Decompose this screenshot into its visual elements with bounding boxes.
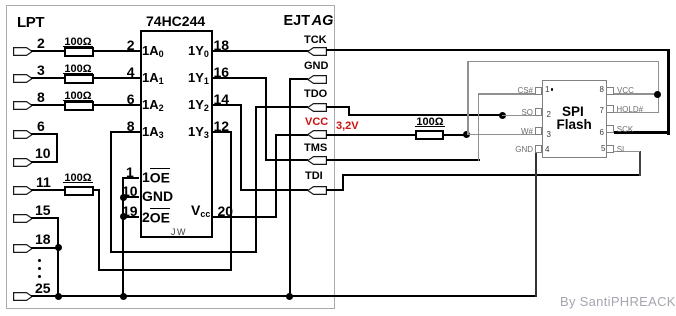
IC U2 SPI Flash body xyxy=(542,80,607,158)
resistor R2 100ohm xyxy=(64,74,94,85)
wire TMS row to connector xyxy=(265,159,309,161)
connector TCK xyxy=(307,47,327,56)
connector LPT pin 15 xyxy=(13,214,33,223)
pin label 1Y0 xyxy=(188,46,209,57)
wire R5 to W# node xyxy=(444,134,467,136)
pin label 1Y3 xyxy=(188,127,209,138)
connector TDO xyxy=(307,103,327,112)
pin number 6 (SPI) xyxy=(600,129,604,137)
pin number 6 xyxy=(37,121,45,132)
pin label 1A2 xyxy=(142,100,164,111)
pin number 16 (IC) xyxy=(214,67,230,78)
pin number 4 (SPI) xyxy=(545,146,549,154)
pin 1 marker dot xyxy=(551,88,554,91)
signal label TMS xyxy=(304,144,327,153)
pin number 5 (SPI) xyxy=(601,145,605,153)
wire 1Y2 (pin14) right xyxy=(213,104,242,106)
pin number 4 (IC) xyxy=(127,67,135,78)
wire OE chain vertical to ground rail xyxy=(122,177,124,298)
label 74HC244 xyxy=(146,15,205,27)
wire pin18 right xyxy=(31,247,59,249)
pin number 18 (IC) xyxy=(214,40,230,51)
pin label 1Y1 xyxy=(188,73,209,84)
pin number 6 (IC) xyxy=(127,94,135,105)
wire TDI right xyxy=(326,189,344,191)
wire TMS to CS# riser xyxy=(326,159,480,161)
wire net A: pin11 riser xyxy=(98,189,100,271)
wire SPI GND drop to rail xyxy=(535,152,537,297)
pin number 12 (IC) xyxy=(214,121,230,132)
connector LPT pin 8 xyxy=(13,101,33,110)
pin label HOLD# xyxy=(616,106,643,114)
wire pin2 to R1 xyxy=(31,50,64,52)
wire W# stub (gray) xyxy=(467,134,536,135)
pin number 2 (IC) xyxy=(127,40,135,51)
pin number 8 xyxy=(37,92,45,103)
wire 1OE stub xyxy=(122,177,139,179)
label EJTAG xyxy=(284,15,334,27)
pin number 18 xyxy=(35,234,51,245)
pin box SI (5) xyxy=(606,145,614,153)
connector LPT pin 2 xyxy=(13,47,33,56)
wire TCK into SCK xyxy=(614,131,670,134)
pin number 8 (SPI) xyxy=(600,86,604,94)
wire SI riser xyxy=(639,151,641,176)
wire TDO right xyxy=(326,106,350,108)
pin number 25 xyxy=(35,283,51,294)
wire pin6-pin10 vertical jumper xyxy=(56,133,58,162)
value label 100ohm R4 xyxy=(63,174,93,183)
ellipsis dots pins 19-24 xyxy=(38,259,41,262)
wire R2 to 1A1 xyxy=(94,77,140,79)
wire TDO to SO xyxy=(348,114,503,116)
pin box W# (3) xyxy=(535,127,542,135)
signal label TCK xyxy=(304,36,327,45)
pin number 11 xyxy=(36,177,51,188)
junction OE/2OE pin19 xyxy=(120,213,127,220)
wire pin10 right xyxy=(31,161,58,163)
resistor R1 100ohm xyxy=(64,47,94,58)
pin box GND (4) xyxy=(535,145,542,153)
wire TDO step down xyxy=(348,106,350,116)
pin label 1Y2 xyxy=(188,100,209,111)
pin label 1A3 xyxy=(142,127,164,138)
wire Vcc riser to VCC row xyxy=(275,134,277,218)
IC U1 74HC244 body xyxy=(140,30,213,238)
pin label 1A0 xyxy=(142,46,164,57)
resistor R3 100ohm xyxy=(64,101,94,112)
pin number 14 (IC) xyxy=(214,94,230,105)
value label 100ohm R2 xyxy=(63,65,93,74)
pin label SO xyxy=(512,109,533,117)
wire net B: riser to TDO row xyxy=(255,106,257,253)
wire 1Y1 (pin16) right xyxy=(213,77,267,79)
connector GND xyxy=(307,75,327,84)
wire SO stub (gray) xyxy=(502,115,536,116)
pin number 8 (IC) xyxy=(127,121,135,132)
signal label VCC (red) xyxy=(305,118,328,127)
pin number 20 (IC) xyxy=(218,206,234,217)
connector LPT pin 10 xyxy=(13,158,33,167)
pin box HOLD# (7) xyxy=(606,105,614,113)
pin number 2 (SPI) xyxy=(547,111,551,119)
connector TDI xyxy=(307,186,327,195)
pin label SI xyxy=(617,146,625,154)
pin number 1 (IC) xyxy=(126,167,134,178)
pin label VCC (SPI) xyxy=(617,87,634,95)
wire 1Y1 drop to TMS row xyxy=(265,77,267,161)
wire net B: 1A3 drop xyxy=(110,131,112,253)
junction OE chain at ground rail xyxy=(120,293,127,300)
wire net B: 1A3 stub (pin 8) xyxy=(110,131,140,133)
wire TDI step up xyxy=(342,174,344,191)
wire HOLD# stub (gray) xyxy=(614,112,659,113)
wire GND connector stub xyxy=(289,78,309,80)
pin number 3 (SPI) xyxy=(547,131,551,139)
wire 1Y2 drop to TDI row xyxy=(240,104,242,191)
pin number 10 (IC) xyxy=(122,186,138,197)
LPT port label xyxy=(17,17,44,29)
junction pin25 chain xyxy=(55,293,62,300)
pin label GND (SPI) xyxy=(512,146,533,154)
pin label Vcc xyxy=(191,205,210,217)
wire VCC right gray drop xyxy=(658,61,659,113)
wire VCC row to connector xyxy=(275,134,308,136)
signal label GND xyxy=(304,62,328,71)
value label 100ohm R5 xyxy=(415,118,445,127)
connector LPT pin 11 xyxy=(13,186,33,195)
wire TDI long horizontal xyxy=(342,174,641,176)
pin number 7 (SPI) xyxy=(600,107,604,115)
wire 1Y3 stub (pin 12) xyxy=(213,131,233,133)
wire GND drop to ground rail xyxy=(289,78,291,297)
connector LPT pin 18 xyxy=(13,244,33,253)
wire pin8 to R3 xyxy=(31,104,64,106)
wire 1Y0 to TCK connector xyxy=(213,50,309,52)
label SPI Flash xyxy=(562,106,584,117)
border frame (decorative) xyxy=(6,5,335,309)
wire pin3 to R2 xyxy=(31,77,64,79)
pin label 1OE with overline xyxy=(142,172,170,183)
wire CS# riser (gray) xyxy=(478,93,479,160)
connector LPT pin 6 xyxy=(13,130,33,139)
pin number 15 xyxy=(35,205,51,216)
pin number 3 xyxy=(37,65,45,76)
pin box CS# (1) xyxy=(535,87,542,95)
wire VCC top gray horizontal xyxy=(467,61,659,62)
wire TDI row to connector xyxy=(240,189,308,191)
pin label GND (IC) xyxy=(142,191,173,202)
wire TCK to right edge (thick) xyxy=(326,49,670,52)
value label 3,2V (red) xyxy=(336,122,359,131)
pin number 10 xyxy=(35,148,51,159)
pin box SO (2) xyxy=(535,108,542,116)
connector LPT pin 3 xyxy=(13,74,33,83)
junction pin18 chain xyxy=(55,244,62,251)
wire pin15 right xyxy=(31,217,59,219)
connector LPT pin 25 xyxy=(13,292,33,301)
pin number 2 xyxy=(37,38,45,49)
value label 100ohm R1 xyxy=(63,38,93,47)
wire R1 to 1A0 xyxy=(94,50,140,52)
junction VCC pin8 node B xyxy=(654,91,661,98)
wire GND stub (IC pin10) xyxy=(122,196,139,198)
connector TMS xyxy=(307,156,327,165)
wire TCK right edge drop xyxy=(667,49,670,135)
resistor R5 100ohm xyxy=(415,130,444,141)
wire VCC riser gray up xyxy=(467,61,468,135)
wire net A: bottom horizontal xyxy=(98,269,232,271)
wire net B: bottom horizontal under IC xyxy=(110,251,257,253)
value label 100ohm R3 xyxy=(63,92,93,101)
wire pin6 right xyxy=(31,133,58,135)
pin label 2OE with overline xyxy=(142,212,170,223)
pin box SCK (6) xyxy=(606,125,614,133)
pin label W# xyxy=(512,128,533,136)
wire Vcc pin20 right xyxy=(213,216,278,218)
junction TDO/SO xyxy=(499,112,506,119)
pin box VCC (8) xyxy=(606,87,614,95)
wire ground rail bottom xyxy=(31,295,537,297)
signature By SantiPHREACK xyxy=(560,296,676,308)
pin label SCK xyxy=(617,126,633,134)
wire VCC pin8 stub (gray) xyxy=(614,93,658,94)
label JW xyxy=(171,229,187,236)
junction ground rail at GND connector drop xyxy=(286,293,293,300)
wire net A: riser to 1Y3 xyxy=(230,131,232,271)
signal label TDO xyxy=(304,90,327,99)
wire R4 right to net A xyxy=(94,189,100,191)
pin label 1A1 xyxy=(142,73,164,84)
junction VCC/W# node A xyxy=(463,131,470,138)
signal label TDI xyxy=(305,172,323,181)
pin number 19 (IC) xyxy=(122,206,138,217)
wire 2OE stub (IC pin19) xyxy=(122,216,139,218)
wire VCC to R5 xyxy=(326,134,415,136)
wire net B: TDO row horizontal xyxy=(255,106,308,108)
connector VCC xyxy=(307,130,327,139)
resistor R4 100ohm xyxy=(64,186,94,197)
junction OE/GND pin10 xyxy=(120,194,127,201)
wire R3 to 1A2 xyxy=(94,104,140,106)
wire pin11 to R4 xyxy=(31,189,64,191)
wire CS# stub (gray) xyxy=(478,93,536,94)
pin number 1 (SPI) xyxy=(545,86,549,94)
pin label CS# xyxy=(512,87,533,95)
wire ground chain vertical 15-18-25 xyxy=(57,217,59,297)
wire SI stub (gray) xyxy=(614,151,640,152)
